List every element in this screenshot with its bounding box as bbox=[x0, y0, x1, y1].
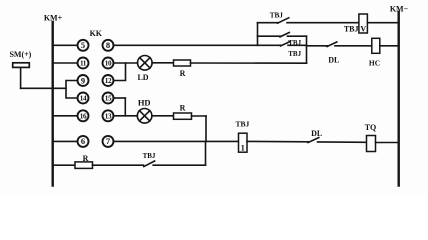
contactor coil HC label bbox=[369, 58, 380, 67]
svg-text:SM(+): SM(+) bbox=[9, 50, 31, 59]
svg-text:13: 13 bbox=[105, 113, 112, 121]
battery SM bbox=[13, 63, 30, 68]
svg-text:14: 14 bbox=[80, 95, 87, 103]
svg-text:6: 6 bbox=[81, 136, 85, 146]
relay coil TBJ-1 bbox=[239, 133, 248, 152]
svg-text:9: 9 bbox=[81, 75, 85, 85]
KK contact 11 bbox=[78, 58, 89, 69]
svg-text:12: 12 bbox=[105, 77, 112, 85]
KK contact 12 bbox=[103, 75, 114, 86]
wire node A vertical bbox=[257, 23, 259, 46]
wire R row5 to drop bbox=[192, 115, 207, 117]
lamp HD label bbox=[138, 97, 151, 107]
svg-text:R: R bbox=[180, 69, 186, 78]
contact TBJ row7 blade bbox=[144, 161, 155, 167]
wire top row left bbox=[258, 22, 279, 24]
contact DL2 label bbox=[311, 129, 322, 138]
svg-text:DL: DL bbox=[328, 55, 339, 64]
wire bus to R row7 bbox=[53, 164, 75, 166]
wire V-coil to KM- bus bbox=[367, 22, 398, 24]
KK contact 14 bbox=[78, 93, 89, 104]
wire HD to R bbox=[152, 115, 174, 117]
svg-text:TQ: TQ bbox=[365, 123, 377, 132]
node KM- label bbox=[390, 5, 409, 14]
svg-text:5: 5 bbox=[81, 40, 85, 50]
breaker contact DL blade bbox=[327, 42, 337, 47]
wire bracket 9-14 bbox=[66, 81, 78, 99]
wire DL to HC bbox=[335, 45, 372, 47]
svg-text:R: R bbox=[180, 104, 186, 113]
contact TBJ mid label bbox=[288, 39, 301, 47]
relay coil TBJ-1 label bbox=[236, 120, 250, 129]
lamp LD label bbox=[137, 73, 148, 82]
wire R row7 to TBJ contact bbox=[93, 164, 144, 166]
contact TBJ row1 label bbox=[288, 50, 301, 58]
KK contact 8 bbox=[103, 40, 114, 51]
contact TBJ row7 label bbox=[143, 152, 156, 160]
KK contact 5 bbox=[78, 40, 89, 51]
contact TBJ row1 blade bbox=[281, 42, 291, 46]
wire top row right bbox=[287, 22, 359, 24]
KK contact 10 bbox=[103, 58, 114, 69]
resistor R row7 bbox=[75, 162, 93, 169]
contactor coil HC bbox=[372, 38, 380, 53]
resistor R row2 bbox=[174, 60, 191, 66]
svg-text:TBJ: TBJ bbox=[344, 24, 359, 33]
wire contact 15 to bracket bbox=[113, 97, 125, 99]
wire contact 10 to LD bbox=[113, 62, 137, 64]
lamp HD bbox=[137, 109, 152, 124]
wire SM down bbox=[20, 67, 22, 88]
KK contact 13 bbox=[103, 110, 114, 121]
contact TBJ top label bbox=[270, 11, 284, 19]
svg-text:11: 11 bbox=[80, 60, 87, 68]
relay coil TBJ-V label bbox=[344, 24, 359, 33]
resistor R row5 label bbox=[180, 104, 186, 113]
resistor R row5 bbox=[174, 113, 192, 119]
resistor R row2 label bbox=[180, 69, 186, 78]
bus KM+ bbox=[52, 22, 54, 186]
svg-text:10: 10 bbox=[105, 60, 112, 68]
wire node B vertical bbox=[306, 36, 308, 63]
wire mid TBJ row left bbox=[258, 35, 281, 37]
wire bus to contact 16 bbox=[53, 115, 78, 117]
node SM(+) label bbox=[9, 50, 31, 59]
resistor R row7 label bbox=[83, 154, 89, 163]
contact DL label bbox=[328, 55, 339, 64]
wire contact 13 to HD bbox=[113, 115, 137, 117]
KK contact 9 bbox=[78, 75, 89, 86]
svg-text:TBJ: TBJ bbox=[288, 50, 301, 58]
switch KK label bbox=[90, 29, 103, 38]
wire bus to contact 5 bbox=[53, 44, 78, 46]
contact TBJ mid blade bbox=[280, 33, 289, 37]
KK contact 7 bbox=[103, 136, 114, 147]
svg-text:TBJ: TBJ bbox=[236, 120, 250, 129]
wire HD branch drop bbox=[205, 116, 207, 141]
KK contact 15 bbox=[103, 93, 114, 104]
wire LD to R bbox=[152, 62, 173, 64]
wire R to node B bbox=[191, 62, 307, 64]
wire bus to contact 6 bbox=[53, 140, 78, 142]
wire contact 7 to TBJ-1 bbox=[113, 140, 238, 142]
KK contact 6 bbox=[78, 136, 89, 147]
svg-text:LD: LD bbox=[137, 73, 148, 82]
wire bracket 10-12 bbox=[113, 63, 125, 81]
relay coil TBJ-V bbox=[359, 14, 368, 33]
wire TQ to KM- bus bbox=[376, 142, 399, 144]
wire bus to contact 11 bbox=[53, 62, 78, 64]
svg-text:15: 15 bbox=[105, 95, 112, 103]
svg-text:HC: HC bbox=[369, 58, 380, 67]
trip coil TQ bbox=[367, 136, 376, 152]
wire row7 rise to row6 bbox=[205, 141, 207, 165]
svg-text:TBJ: TBJ bbox=[143, 152, 156, 160]
wire bracket 15-13 bbox=[124, 98, 126, 116]
svg-text:TBJ: TBJ bbox=[270, 11, 284, 19]
wire node B to DL bbox=[307, 45, 328, 47]
wire row1 to node B bbox=[288, 44, 307, 46]
node KM+ label bbox=[44, 14, 63, 23]
svg-text:DL: DL bbox=[311, 129, 322, 138]
wire HC to KM- bus bbox=[380, 45, 399, 47]
wire contact 8 to node A bbox=[113, 44, 280, 46]
wire TBJ-1 to DL bbox=[247, 140, 309, 142]
svg-text:1: 1 bbox=[241, 143, 245, 153]
contact TBJ top blade bbox=[278, 18, 289, 23]
trip coil TQ label bbox=[365, 123, 377, 132]
wire mid TBJ row right bbox=[288, 35, 307, 37]
svg-text:KK: KK bbox=[90, 29, 103, 38]
svg-text:8: 8 bbox=[106, 40, 110, 50]
svg-text:V: V bbox=[360, 24, 366, 33]
wire DL2 to TQ bbox=[318, 141, 367, 143]
svg-text:16: 16 bbox=[80, 113, 87, 121]
lamp LD bbox=[138, 56, 153, 71]
KK contact 16 bbox=[78, 110, 89, 121]
svg-text:HD: HD bbox=[138, 97, 151, 107]
wire SM to bracket bbox=[21, 87, 66, 89]
breaker contact DL2 blade bbox=[308, 138, 319, 143]
bus KM- bbox=[398, 12, 400, 186]
svg-text:7: 7 bbox=[106, 136, 111, 146]
wire TBJ row7 right bbox=[153, 164, 205, 166]
